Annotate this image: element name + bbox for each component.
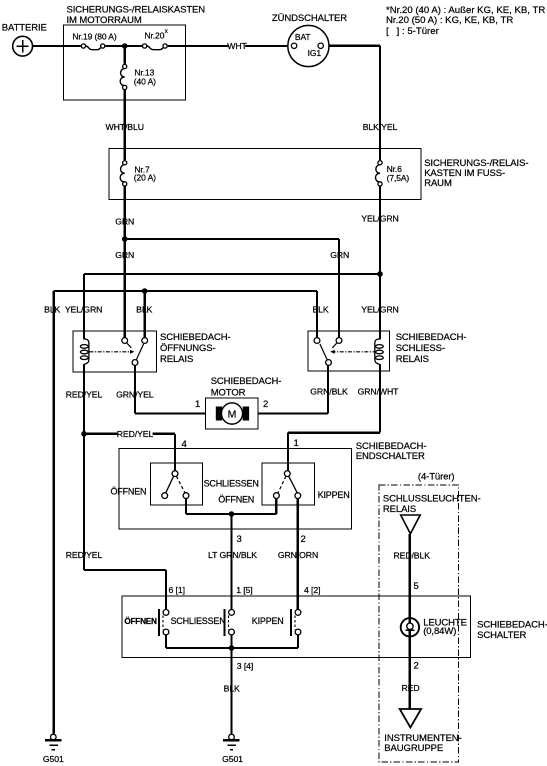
svg-text:GRN: GRN [115, 217, 134, 227]
svg-text:GRN/BLK: GRN/BLK [310, 386, 348, 396]
svg-text:WHT: WHT [227, 41, 247, 51]
svg-text:RAUM: RAUM [424, 178, 452, 189]
svg-text:ÖFFNEN: ÖFFNEN [218, 495, 254, 505]
svg-text:1: 1 [195, 399, 200, 410]
svg-text:GRN/ORN: GRN/ORN [278, 550, 318, 560]
svg-text:RED/BLK: RED/BLK [393, 550, 430, 560]
svg-text:G501: G501 [43, 754, 64, 764]
svg-text:BLK: BLK [44, 304, 60, 314]
svg-text:(0,84W): (0,84W) [423, 626, 456, 637]
svg-text:BLK/YEL: BLK/YEL [363, 122, 398, 132]
svg-text:GRN: GRN [115, 250, 134, 260]
svg-text:Nr.20: Nr.20 [145, 31, 165, 41]
svg-text:WHT/BLU: WHT/BLU [105, 122, 143, 132]
svg-text:[ ] : 5-Türer: [ ] : 5-Türer [386, 26, 440, 37]
svg-text:3 [4]: 3 [4] [237, 661, 253, 671]
svg-text:2: 2 [301, 534, 306, 545]
svg-text:BAUGRUPPE: BAUGRUPPE [384, 743, 443, 754]
svg-text:SCHLIESSEN: SCHLIESSEN [171, 616, 226, 626]
svg-text:(4-Türer): (4-Türer) [418, 472, 455, 483]
svg-text:1 [5]: 1 [5] [236, 585, 252, 595]
svg-text:ENDSCHALTER: ENDSCHALTER [356, 451, 425, 462]
svg-text:GRN/WHT: GRN/WHT [358, 386, 400, 396]
svg-text:GRN/YEL: GRN/YEL [116, 390, 154, 400]
svg-text:BAT: BAT [295, 32, 311, 42]
svg-text:SCHIEBEDACH-: SCHIEBEDACH- [211, 376, 282, 387]
svg-text:BLK: BLK [224, 684, 240, 694]
svg-text:RED/YEL: RED/YEL [66, 390, 103, 400]
svg-text:(20 A): (20 A) [134, 172, 156, 182]
svg-text:RELAIS: RELAIS [160, 354, 193, 365]
svg-text:SCHIEBEDACH-: SCHIEBEDACH- [160, 332, 231, 343]
svg-text:Nr.20 (50 A) : KG, KE, KB, TR: Nr.20 (50 A) : KG, KE, KB, TR [386, 15, 513, 26]
svg-text:RELAIS: RELAIS [396, 354, 429, 365]
svg-text:G501: G501 [222, 754, 243, 764]
svg-text:SCHALTER: SCHALTER [477, 630, 526, 641]
svg-text:RED/YEL: RED/YEL [66, 550, 103, 560]
svg-text:1: 1 [294, 438, 299, 449]
svg-text:x: x [165, 29, 168, 35]
svg-text:(7,5A): (7,5A) [387, 173, 410, 183]
svg-text:(40 A): (40 A) [134, 77, 156, 87]
svg-text:SCHLIESSEN: SCHLIESSEN [204, 479, 259, 489]
svg-text:IG1: IG1 [308, 48, 322, 58]
svg-text:ÖFFNEN: ÖFFNEN [111, 487, 147, 497]
svg-text:RED/YEL: RED/YEL [117, 429, 154, 439]
svg-text:SCHIEBEDACH-: SCHIEBEDACH- [396, 332, 467, 343]
svg-text:*Nr.20 (40 A) : Außer KG, KE,: *Nr.20 (40 A) : Außer KG, KE, KB, TR [386, 5, 545, 16]
svg-text:KIPPEN: KIPPEN [318, 490, 350, 500]
svg-text:ZÜNDSCHALTER: ZÜNDSCHALTER [272, 13, 347, 24]
svg-text:IM MOTORRAUM: IM MOTORRAUM [67, 15, 142, 26]
svg-text:5: 5 [414, 581, 419, 592]
svg-text:6 [1]: 6 [1] [169, 585, 185, 595]
svg-text:ÖFFNUNGS-: ÖFFNUNGS- [160, 343, 216, 354]
svg-text:SCHLIESS-: SCHLIESS- [396, 343, 445, 354]
svg-text:RELAIS: RELAIS [383, 504, 416, 515]
svg-text:2: 2 [263, 399, 268, 410]
svg-text:4 [2]: 4 [2] [304, 585, 320, 595]
svg-text:SICHERUNGS-/RELAISKASTEN: SICHERUNGS-/RELAISKASTEN [67, 4, 206, 15]
svg-text:M: M [228, 408, 237, 420]
svg-text:BATTERIE: BATTERIE [2, 23, 47, 34]
svg-text:GRN: GRN [330, 250, 349, 260]
svg-text:MOTOR: MOTOR [211, 388, 246, 399]
svg-text:SCHIEBEDACH-: SCHIEBEDACH- [477, 619, 547, 630]
svg-text:BLK: BLK [312, 304, 328, 314]
svg-text:Nr.19 (80 A): Nr.19 (80 A) [72, 31, 116, 41]
svg-text:YEL/GRN: YEL/GRN [361, 304, 398, 314]
svg-text:LT GRN/BLK: LT GRN/BLK [208, 550, 257, 560]
svg-text:ÖFFNEN: ÖFFNEN [124, 616, 157, 626]
svg-text:3: 3 [237, 534, 242, 545]
svg-text:KIPPEN: KIPPEN [252, 616, 284, 626]
svg-text:BLK: BLK [136, 304, 152, 314]
svg-text:2: 2 [414, 661, 419, 672]
svg-text:RED: RED [401, 683, 419, 693]
svg-text:YEL/GRN: YEL/GRN [65, 304, 102, 314]
svg-text:YEL/GRN: YEL/GRN [361, 214, 398, 224]
